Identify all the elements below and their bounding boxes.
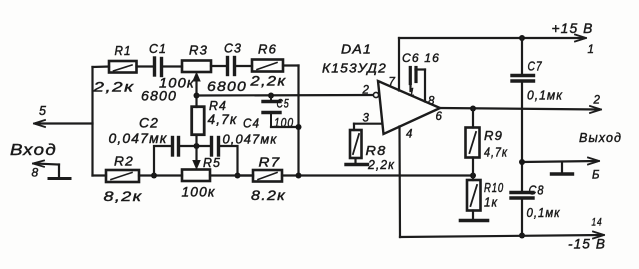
wire C7C8 bus middle [521,81,523,192]
svg-text:R7: R7 [259,156,281,170]
node C4 bottom junction [235,173,241,179]
node C5 top [268,93,274,99]
svg-text:8.2к: 8.2к [251,188,286,203]
svg-text:8: 8 [32,166,40,180]
node R4-R5 wiper junction [194,143,200,149]
wire R9 top lead [472,109,474,128]
resistor R9 [466,128,480,158]
svg-text:1: 1 [409,87,416,99]
capacitor C6 [410,68,425,102]
wire R6 to feedback bus corner [283,64,299,66]
svg-text:R8: R8 [366,144,387,158]
svg-text:6800: 6800 [207,78,247,94]
svg-text:4,7к: 4,7к [484,145,508,160]
svg-text:R5: R5 [203,156,221,170]
node R9 output junction [470,106,476,112]
capacitor C2 [173,138,179,156]
op-amp U1 DA1 triangle [378,81,440,134]
wire C2 to C4 [179,145,212,147]
svg-text:R6: R6 [258,43,277,57]
svg-text:2,2к: 2,2к [367,157,395,172]
svg-text:100к: 100к [159,75,195,91]
svg-text:0,047мк: 0,047мк [223,132,278,147]
svg-text:R4: R4 [209,99,227,113]
svg-text:С5: С5 [277,97,290,111]
svg-text:R9: R9 [484,129,503,143]
svg-text:С1: С1 [149,42,167,56]
svg-text:8,2к: 8,2к [104,188,143,204]
node +15 C7 junction [519,35,525,41]
svg-text:Вход: Вход [10,142,57,159]
resistor R4 [192,107,205,135]
wire R1 to C1 [137,65,155,67]
node feedback bus bottom [296,173,302,179]
svg-text:1: 1 [588,44,596,56]
wire top row left [93,65,110,68]
capacitor C1 [155,58,162,76]
node C5 feedback junction [296,124,302,130]
wire R3 to C3 [211,65,227,67]
svg-text:С3: С3 [224,42,242,56]
svg-text:4: 4 [406,129,414,141]
svg-text:100к: 100к [182,185,216,200]
wire left bus [91,67,93,176]
wire R3 wiper down [195,79,197,107]
svg-text:Б: Б [592,170,601,182]
node C2 bottom junction [151,173,157,179]
wire C8 bus lower [521,198,523,236]
wire middle to op-amp pin2 [197,94,374,97]
node pin2 wire start [194,93,200,99]
node R9 R10 junction [470,173,476,179]
svg-text:5: 5 [39,104,47,118]
wire +15 rail [399,35,586,42]
wire output pin6 [440,106,601,113]
resistor R8 [350,130,362,158]
svg-text:+15 В: +15 В [552,20,594,36]
svg-text:DA1: DA1 [341,42,372,57]
capacitor C5 [263,96,280,128]
svg-text:Выход: Выход [579,130,622,145]
wire C4 branch down [219,146,238,176]
wiper arrow R5 [193,161,200,169]
terminal 8 input arrow [33,161,70,179]
wire R5 to C4 node [210,174,253,176]
node common bus junction [519,159,525,165]
svg-text:С6 16: С6 16 [402,51,440,65]
wire R7 row [238,174,254,176]
wire C7 bus upper [521,38,523,75]
node -15 rail C8 junction [519,233,525,239]
svg-text:6: 6 [436,111,444,123]
wiper arrow R3 [193,73,200,81]
svg-text:-15 В: -15 В [568,237,606,252]
wire common terminal Б [522,158,599,165]
ground on common wire [552,162,573,174]
svg-text:3: 3 [363,113,371,125]
capacitor C3 [228,58,235,75]
resistor R7 [253,170,282,182]
svg-text:0,1мк: 0,1мк [527,88,563,103]
capacitor C7 [512,76,534,82]
wire R4 to R5 wiper [195,135,197,161]
resistor R1 [109,61,137,73]
svg-text:1к: 1к [484,195,498,210]
wire C5 to feedback bus [271,126,299,128]
svg-text:К153УД2: К153УД2 [322,61,387,76]
ground under R8 [346,159,368,165]
inverting input bubble pin2 [373,92,378,97]
svg-text:7: 7 [389,77,397,89]
ground under R10 [461,211,488,221]
resistor R6 [252,60,283,72]
svg-text:R10: R10 [484,181,504,195]
wire pin4 down to -15 rail [398,127,401,238]
svg-text:R3: R3 [189,44,208,58]
wire C1 to R3 [162,65,183,67]
wire bottom row left [93,174,107,176]
wire -15 rail [400,232,604,239]
svg-text:8: 8 [428,96,436,108]
wire feedback bus [297,66,299,176]
svg-text:2: 2 [593,95,602,107]
svg-text:0,1мк: 0,1мк [527,205,561,220]
svg-text:R1: R1 [115,44,132,58]
wire C2 branch up [154,146,172,176]
svg-text:2,2к: 2,2к [92,79,135,95]
svg-text:2,2к: 2,2к [249,74,286,89]
wire R2 to node C2 [139,174,182,176]
svg-text:14: 14 [592,217,603,229]
capacitor C4 [212,138,219,156]
svg-text:R2: R2 [114,155,134,169]
wire pin7 to +15 rail [398,38,400,91]
terminal 5 input arrow [34,120,93,127]
resistor R10 [467,180,481,211]
svg-text:4,7к: 4,7к [208,112,238,127]
potentiometer R5 [182,170,210,182]
capacitor C8 [511,193,533,199]
svg-text:0,047мк: 0,047мк [109,131,168,146]
svg-text:2: 2 [362,85,371,97]
resistor R2 [106,170,139,182]
wire R9 bottom lead [472,158,474,181]
wire op-amp pin3 [354,123,381,125]
wire pin3 down to R8 [353,124,355,130]
svg-text:С4: С4 [243,116,260,131]
wire C3 to R6 [235,65,253,67]
svg-text:С2: С2 [139,116,159,131]
wire R7 right to R9R10 node [282,174,473,176]
svg-text:С8: С8 [529,183,545,198]
potentiometer R3 [182,61,211,73]
svg-text:С7: С7 [528,59,543,74]
